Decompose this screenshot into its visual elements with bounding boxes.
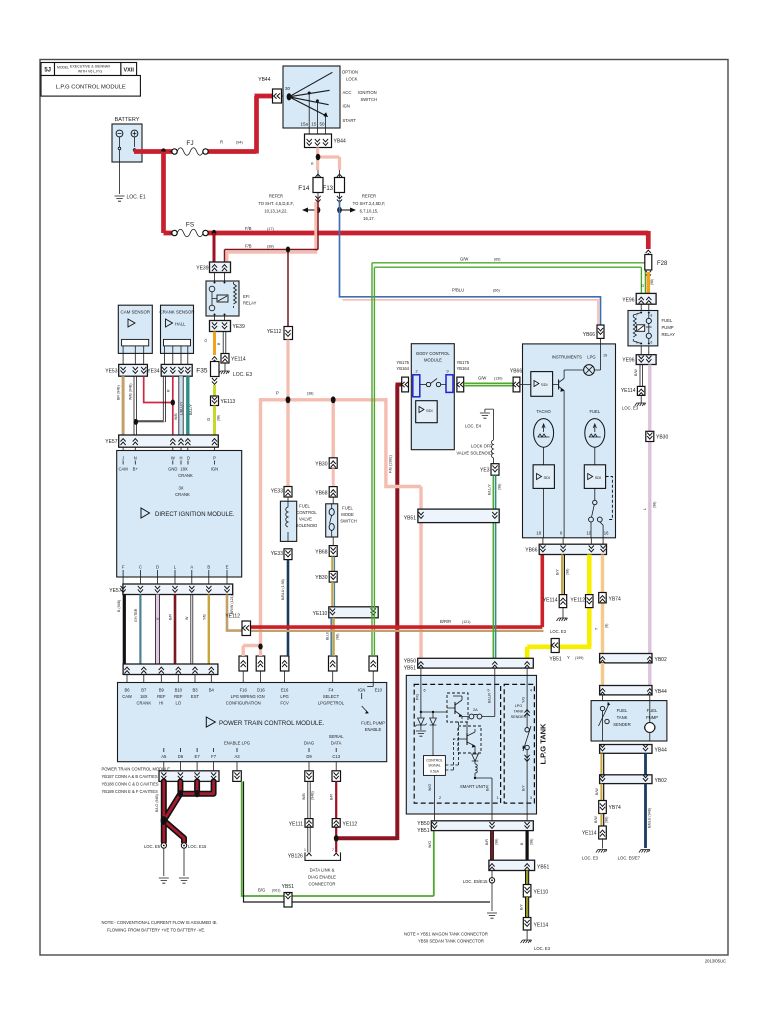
connector YE39 upper (196, 262, 230, 273)
svg-text:30: 30 (285, 86, 291, 91)
svg-text:ENABLE LPG: ENABLE LPG (224, 741, 250, 746)
svg-text:W/G: W/G (428, 784, 432, 791)
wire orange F28 to YE96 (646, 272, 650, 293)
svg-text:(38): (38) (267, 245, 274, 249)
svg-text:B/Y: B/Y (521, 785, 525, 791)
svg-text:CONNECTOR: CONNECTOR (309, 882, 336, 887)
connector YB175 YB164 left (396, 360, 409, 392)
connector YB66 inline (510, 369, 528, 392)
wire teal band (186, 376, 189, 435)
connector F16 (239, 656, 248, 683)
connector YE111 (289, 819, 313, 828)
svg-text:2013/05UC: 2013/05UC (705, 959, 726, 964)
svg-text:OPTION: OPTION (342, 70, 358, 75)
svg-text:YB66: YB66 (510, 369, 522, 375)
wire V plum band (155, 595, 159, 665)
svg-text:YB68: YB68 (315, 491, 327, 497)
svg-text:YE112: YE112 (570, 598, 585, 604)
LPG lamp (584, 365, 595, 376)
svg-text:O: O (204, 339, 208, 342)
svg-text:W/B (94B): W/B (94B) (129, 383, 133, 400)
svg-text:6: 6 (651, 341, 653, 345)
svg-text:VXII: VXII (123, 68, 134, 74)
body control module U5 (411, 344, 454, 450)
wire green G/W pair fuel pump enable (372, 263, 645, 656)
svg-text:16: 16 (604, 531, 609, 536)
svg-text:5: 5 (487, 689, 489, 693)
svg-text:F4: F4 (329, 688, 335, 693)
connector YE33 lower (271, 549, 292, 560)
wire B/R serial data (335, 781, 337, 852)
instruments U6 (523, 338, 616, 537)
svg-text:F/B: F/B (245, 244, 252, 249)
svg-text:(8): (8) (605, 624, 609, 628)
diode coil branch (472, 749, 492, 803)
svg-text:YE39: YE39 (233, 324, 245, 330)
svg-text:LOC. E15: LOC. E15 (188, 844, 207, 849)
svg-text:F13: F13 (323, 186, 334, 192)
svg-text:D16: D16 (257, 688, 265, 693)
svg-text:REFER: REFER (362, 194, 376, 199)
svg-text:YE112: YE112 (267, 329, 282, 335)
svg-text:YE110: YE110 (534, 890, 549, 896)
connector F4 (329, 656, 338, 683)
svg-text:LPG: LPG (280, 694, 288, 699)
cam sensor (118, 305, 152, 364)
connector YE114 relay (621, 386, 645, 395)
svg-text:2A: 2A (473, 708, 478, 712)
svg-text:(94): (94) (236, 141, 243, 145)
svg-text:B+: B+ (133, 467, 139, 472)
svg-text:FS: FS (186, 222, 195, 229)
connector YB74 inline (599, 593, 621, 603)
wire gold blue pair to YE110 (331, 582, 333, 607)
connector YE112 upper (267, 327, 293, 340)
svg-text:TACHO: TACHO (536, 409, 551, 414)
dashed control links (445, 722, 458, 770)
wire dark red from FS junction to EFI relay (213, 233, 216, 262)
connector YE3 (480, 464, 499, 476)
svg-text:YB51: YB51 (417, 828, 429, 834)
svg-text:YE57: YE57 (109, 588, 121, 594)
svg-text:SWITCH: SWITCH (361, 97, 378, 102)
svg-text:RELAY: RELAY (662, 332, 676, 337)
wire BR cam (122, 376, 125, 435)
svg-text:A5: A5 (161, 754, 167, 759)
svg-text:(98): (98) (498, 484, 502, 490)
svg-text:F16: F16 (240, 688, 248, 693)
svg-text:INSTRUMENTS: INSTRUMENTS (552, 355, 582, 360)
svg-text:B6: B6 (124, 688, 130, 693)
svg-text:YB50 SEDAN TANK CONNECTOR: YB50 SEDAN TANK CONNECTOR (418, 939, 484, 944)
connector strip below PTCM A5-F7 (159, 762, 219, 782)
svg-text:18X: 18X (180, 467, 188, 472)
ground circles LOC E5 LOC E15 (161, 843, 166, 848)
connector A3 (233, 762, 242, 782)
svg-text:Y/G: Y/G (521, 697, 525, 703)
connector YB02 upper (600, 654, 667, 664)
connector YE96 upper strip (622, 293, 656, 304)
svg-text:YB51: YB51 (404, 516, 416, 522)
svg-text:START: START (343, 118, 357, 123)
wire blue F13 to instruments (340, 200, 601, 325)
svg-text:R: R (166, 389, 170, 392)
wire gold blue pair switch to YB30 (331, 556, 333, 571)
connector E16 (280, 656, 289, 683)
svg-text:T: T (595, 627, 599, 630)
connector YB66 strip (525, 538, 606, 555)
svg-text:B/R/R: B/R/R (440, 619, 451, 624)
svg-text:15: 15 (311, 122, 317, 127)
connector strip above PTCM left (123, 664, 218, 683)
control signal box (424, 756, 446, 776)
svg-text:F35: F35 (196, 368, 208, 375)
svg-text:(130): (130) (494, 377, 502, 381)
svg-text:IGNITION: IGNITION (358, 90, 377, 95)
svg-text:DIAG: DIAG (304, 741, 314, 746)
svg-text:W: W (171, 456, 175, 461)
svg-text:VALVE SOLENOID: VALVE SOLENOID (456, 451, 492, 456)
svg-text:YB51: YB51 (404, 666, 416, 672)
svg-text:H: H (179, 456, 182, 461)
wire B/W relay ground (640, 365, 642, 387)
wire blue gold pair YE110 to F4 (330, 618, 332, 656)
svg-text:LO: LO (176, 701, 182, 706)
connector YE112 inline yellow (570, 595, 593, 608)
svg-text:10: 10 (586, 531, 591, 536)
svg-text:EFI: EFI (243, 294, 250, 299)
fuse F35 (196, 357, 219, 385)
connector YE113 (211, 396, 236, 406)
wire salmon P distribution (243, 398, 421, 658)
svg-text:SENDER: SENDER (613, 722, 630, 727)
svg-text:D6: D6 (178, 754, 184, 759)
connector YE114 (221, 354, 246, 364)
ground LOC. E4 lock off valve (465, 409, 493, 428)
ground LOC. E3 relay (640, 395, 642, 403)
svg-text:YB188 CONN C & D CAVITIES: YB188 CONN C & D CAVITIES (102, 782, 159, 787)
fuse F14 (298, 170, 323, 202)
svg-text:YE96: YE96 (622, 298, 634, 304)
svg-text:(38): (38) (307, 392, 313, 396)
svg-text:YE53: YE53 (105, 369, 117, 375)
svg-text:3: 3 (530, 796, 532, 800)
svg-text:FCV: FCV (280, 701, 289, 706)
svg-text:F28: F28 (657, 261, 668, 267)
svg-text:(98): (98) (336, 634, 340, 640)
connector YE114 lower right (582, 826, 606, 839)
refer arrows right (337, 194, 385, 222)
svg-text:HI: HI (159, 701, 163, 706)
ground circle LOC E5/E15 (491, 871, 493, 878)
svg-text:IGN: IGN (211, 467, 218, 472)
svg-text:YE39: YE39 (196, 266, 208, 272)
svg-text:E10: E10 (375, 688, 383, 693)
connector YB51 strip mid (404, 509, 499, 522)
svg-text:PUMP: PUMP (662, 325, 674, 330)
connector YB51 inline yellow (549, 639, 561, 663)
connector YE34 (147, 364, 192, 376)
wire lime G to YE57 (213, 406, 216, 436)
svg-text:YE111: YE111 (289, 822, 303, 828)
svg-text:YB51: YB51 (549, 657, 561, 663)
svg-text:EXECUTIVE & SIENNA/I: EXECUTIVE & SIENNA/I (70, 65, 110, 69)
svg-text:YE114: YE114 (534, 923, 549, 929)
svg-text:YB02: YB02 (655, 657, 667, 663)
svg-text:E: E (226, 565, 229, 570)
fuel tank sender and fuel pump (591, 695, 667, 741)
svg-text:D9: D9 (306, 754, 312, 759)
svg-text:P/BLU: P/BLU (452, 288, 464, 293)
svg-text:YB44: YB44 (334, 139, 346, 145)
connector YE112 inline tan-red (225, 614, 250, 636)
svg-text:LOC. E5: LOC. E5 (144, 844, 161, 849)
svg-text:B/LL/Y: B/LL/Y (189, 404, 193, 415)
wire navy B/BLU to E16 (287, 560, 290, 656)
connector YB68 lower (315, 537, 337, 556)
svg-text:YE96: YE96 (622, 358, 634, 364)
fuel pump relay U7 (628, 304, 675, 346)
fuse F28 (645, 250, 668, 277)
transistor Q3 (458, 726, 481, 753)
svg-text:LOCK: LOCK (346, 77, 358, 82)
svg-text:W/G: W/G (428, 841, 432, 848)
lock off valve solenoid L2 (456, 409, 493, 464)
fuel mode switch S2 (326, 497, 357, 537)
svg-text:YB164: YB164 (457, 366, 470, 371)
svg-text:YB30: YB30 (315, 462, 327, 468)
svg-text:19: 19 (603, 354, 607, 358)
connector YE53 (105, 364, 147, 376)
wire navy to ground LOC E6/E7 (644, 784, 647, 848)
svg-text:CAM: CAM (118, 467, 128, 472)
svg-text:SMART UNIT: SMART UNIT (460, 784, 486, 789)
svg-text:2: 2 (439, 796, 441, 800)
svg-text:P: P (276, 391, 279, 396)
wire thick crimson serial data to BCM (336, 385, 402, 841)
svg-text:IGN: IGN (343, 104, 350, 109)
svg-text:YB66: YB66 (583, 332, 595, 338)
svg-text:SELECT: SELECT (323, 694, 340, 699)
svg-text:(121): (121) (462, 620, 470, 624)
svg-text:G: G (206, 418, 211, 421)
wire B/Y gauge ground (561, 555, 563, 595)
svg-text:CAW: CAW (122, 694, 132, 699)
svg-text:L.P.G CONTROL MODULE: L.P.G CONTROL MODULE (56, 85, 126, 91)
svg-text:B/R: B/R (486, 785, 490, 791)
svg-text:HALL: HALL (175, 322, 186, 327)
svg-text:B/BLU (1.98): B/BLU (1.98) (281, 579, 285, 600)
svg-text:B (94B): B (94B) (117, 600, 121, 612)
svg-text:B/LL/Y: B/LL/Y (488, 484, 492, 495)
SDI 1 (531, 372, 553, 397)
svg-text:SIGNAL: SIGNAL (428, 764, 441, 768)
svg-text:C13: C13 (332, 754, 340, 759)
svg-text:YB175: YB175 (396, 360, 409, 365)
wire G/W pair BCM to instruments (464, 383, 513, 385)
svg-text:W: W (185, 616, 189, 620)
svg-text:L.P.G TANK: L.P.G TANK (539, 723, 548, 765)
svg-text:LOC. E6/E7: LOC. E6/E7 (618, 856, 641, 861)
svg-text:YB30: YB30 (656, 435, 668, 441)
svg-text:YB189 CONN E & F CAVITIES: YB189 CONN E & F CAVITIES (102, 789, 159, 794)
fuel control valve solenoid L1 (280, 497, 317, 541)
smart unit dashed box (414, 684, 500, 803)
svg-text:B/LLR: B/LLR (488, 693, 492, 703)
svg-text:ENABLE: ENABLE (365, 727, 382, 732)
wire salmon YB30 to YB68 (332, 468, 335, 486)
svg-text:TO SHT.3,4,5D,F,: TO SHT.3,4,5D,F, (353, 201, 386, 206)
svg-text:CONTROL: CONTROL (296, 510, 317, 515)
svg-text:NOTE > YB51 WAGON TANK CONNECT: NOTE > YB51 WAGON TANK CONNECTOR (404, 932, 488, 937)
wire B/BLU pump return (644, 753, 647, 775)
svg-text:G/W: G/W (478, 376, 486, 381)
svg-text:1: 1 (497, 796, 499, 800)
wire thick earth wires K pattern (164, 781, 214, 842)
svg-text:J: J (122, 456, 124, 461)
connector YB126 data link (288, 848, 341, 860)
svg-text:NOTE:- CONVENTIONAL CURRENT FL: NOTE:- CONVENTIONAL CURRENT FLOW IS ASSU… (102, 920, 218, 925)
svg-text:BODY CONTROL: BODY CONTROL (416, 351, 450, 356)
svg-text:REFER: REFER (269, 194, 283, 199)
svg-text:YE112: YE112 (225, 614, 240, 620)
svg-text:EST: EST (191, 694, 200, 699)
crank sensor (159, 305, 194, 364)
svg-text:W/B: W/B (302, 793, 306, 800)
svg-text:WITH V6 L.P.G: WITH V6 L.P.G (78, 70, 103, 74)
wire red tan pair YE112 to instruments (249, 554, 542, 628)
connector YE114 inline (543, 595, 567, 608)
wire LBLU band (179, 376, 184, 435)
direct ignition module U3 (117, 451, 242, 578)
svg-text:DATA: DATA (331, 741, 342, 746)
connector YB51 bottom (489, 860, 550, 870)
svg-text:LOC. E4: LOC. E4 (465, 424, 482, 429)
svg-text:(98): (98) (605, 817, 609, 823)
svg-text:SDI: SDI (544, 475, 551, 480)
svg-text:BR/W (121): BR/W (121) (230, 595, 234, 614)
svg-text:REF: REF (174, 694, 183, 699)
svg-text:DIAG ENABLE: DIAG ENABLE (308, 875, 336, 880)
svg-text:6: 6 (424, 689, 426, 693)
svg-text:YB50: YB50 (417, 821, 429, 827)
connector YE110 strip (313, 607, 379, 618)
svg-text:YB68: YB68 (315, 550, 327, 556)
wire B black (123, 595, 126, 665)
svg-text:B/W: B/W (594, 816, 598, 823)
svg-text:SENDER: SENDER (511, 715, 527, 719)
svg-text:FUEL PUMP: FUEL PUMP (361, 721, 385, 726)
connector YB51 inline on green (282, 884, 294, 907)
svg-text:10,13,14,22.: 10,13,14,22. (264, 209, 287, 214)
connector YB30 lower (315, 571, 337, 582)
svg-text:YB30: YB30 (315, 575, 327, 581)
wire orange EFI to F35 (213, 332, 216, 356)
connector YE110 bottom (523, 885, 548, 898)
svg-text:YE34: YE34 (147, 369, 159, 375)
svg-text:TANK: TANK (617, 715, 628, 720)
svg-text:LOC. E3: LOC. E3 (534, 946, 551, 951)
svg-text:REF: REF (157, 694, 166, 699)
wire green teal pair lock off to tank (492, 475, 494, 658)
wire lavender fuel pump feed (648, 365, 651, 687)
wire B/Y to ground (525, 871, 529, 885)
svg-text:B/G: B/G (258, 888, 265, 893)
svg-text:YB74: YB74 (609, 597, 621, 603)
svg-text:3X: 3X (178, 486, 183, 491)
svg-text:O: O (641, 283, 644, 288)
SDI 2 (533, 465, 554, 489)
wire salmon ignition feed to F14 F13 (318, 148, 340, 171)
wire yellow fuel gauge to tank (527, 555, 591, 659)
connector YE114 bottom (523, 918, 548, 931)
svg-text:E7: E7 (195, 754, 201, 759)
connector YE39 lower (210, 316, 245, 332)
svg-text:CONFIGURATION: CONFIGURATION (226, 701, 261, 706)
connector YB44 lower (305, 134, 346, 148)
svg-text:(94B): (94B) (311, 791, 315, 800)
wire B/R tank to YB51 (490, 831, 494, 861)
svg-text:16,17.: 16,17. (363, 216, 375, 221)
sender dashed box (504, 684, 534, 803)
svg-text:Y/B: Y/B (203, 614, 207, 620)
svg-text:YB44: YB44 (655, 748, 667, 754)
ground LOC. E3 below YE114 (562, 608, 564, 618)
PTCM connector cavity text (102, 767, 171, 795)
svg-text:FUEL: FUEL (647, 708, 658, 713)
svg-text:CAM SENSOR: CAM SENSOR (121, 310, 151, 315)
wire battery ground (119, 150, 121, 194)
svg-text:18X: 18X (140, 694, 148, 699)
svg-text:(199): (199) (575, 656, 583, 660)
svg-text:YB02: YB02 (655, 778, 667, 784)
wire B tank to YB51 (525, 831, 528, 861)
connector YE112 serial (332, 819, 357, 828)
ground LOC. E3 (224, 363, 226, 371)
connector YB175 YB164 right (457, 360, 470, 392)
svg-text:MODE: MODE (341, 512, 354, 517)
svg-text:YB44: YB44 (258, 77, 270, 83)
connector YE57 top strip (105, 435, 218, 451)
svg-text:(65): (65) (494, 258, 500, 262)
fuse FJ (170, 140, 244, 156)
svg-text:6,7,10,15,: 6,7,10,15, (360, 209, 379, 214)
svg-text:(98): (98) (650, 279, 654, 285)
svg-text:MODEL: MODEL (57, 66, 69, 70)
svg-text:B: B (217, 342, 221, 345)
svg-text:D: D (156, 565, 159, 570)
svg-text:YE57: YE57 (105, 439, 117, 445)
svg-text:BATTERY: BATTERY (115, 117, 140, 123)
svg-text:(98): (98) (566, 569, 570, 575)
connector YB74 lower (599, 801, 621, 814)
ignition switch (258, 66, 377, 134)
ground LOC. E1 (115, 196, 125, 201)
wire BR tan DIM pin E to YE112 (227, 595, 242, 631)
svg-text:RELAY: RELAY (243, 301, 257, 306)
svg-text:YE33: YE33 (271, 551, 283, 557)
svg-text:LOC. E3: LOC. E3 (582, 856, 599, 861)
svg-text:P/G: P/G (415, 694, 419, 700)
svg-text:CRANK: CRANK (175, 492, 190, 497)
wire thick red down to FS (164, 152, 173, 234)
svg-text:(001): (001) (272, 889, 280, 893)
fuse F13 (323, 170, 345, 202)
svg-text:B4: B4 (209, 688, 215, 693)
connector YB30 top of fuel mode column (315, 458, 337, 469)
svg-text:VALVE: VALVE (299, 517, 312, 522)
EFI relay U2 (206, 273, 257, 317)
